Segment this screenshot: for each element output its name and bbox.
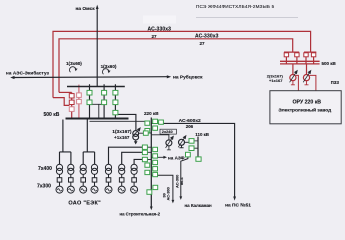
svg-text:7х300: 7х300 bbox=[37, 184, 51, 190]
svg-text:220 кВ: 220 кВ bbox=[144, 111, 159, 116]
svg-text:2х240: 2х240 bbox=[162, 129, 173, 134]
svg-text:110 кВ: 110 кВ bbox=[195, 132, 209, 137]
svg-text:1(3х167): 1(3х167) bbox=[112, 129, 132, 135]
svg-text:на Рубцовск: на Рубцовск bbox=[173, 74, 203, 81]
svg-text:АС-330х3: АС-330х3 bbox=[195, 34, 219, 40]
svg-text:АС-330х3: АС-330х3 bbox=[148, 27, 172, 33]
svg-text:на Омск: на Омск bbox=[76, 6, 96, 12]
svg-text:+1х167: +1х167 bbox=[269, 78, 283, 83]
svg-text:7х400: 7х400 bbox=[38, 166, 52, 172]
svg-text:500 кВ: 500 кВ bbox=[44, 112, 60, 118]
svg-text:Электролизный завод: Электролизный завод bbox=[278, 107, 331, 114]
svg-text:1(3х60): 1(3х60) bbox=[66, 61, 82, 66]
svg-text:27: 27 bbox=[152, 34, 158, 39]
svg-text:+1х167: +1х167 bbox=[114, 135, 130, 140]
svg-text:86.4: 86.4 bbox=[179, 177, 184, 185]
svg-text:на Строительная-2: на Строительная-2 bbox=[120, 211, 161, 216]
svg-text:206: 206 bbox=[186, 124, 194, 129]
svg-text:27: 27 bbox=[200, 41, 206, 46]
svg-text:на АЭС-Экибастуз: на АЭС-Экибастуз bbox=[6, 70, 50, 76]
svg-text:на АЗФ: на АЗФ bbox=[168, 155, 185, 160]
svg-text:1(3х60): 1(3х60) bbox=[101, 64, 117, 69]
svg-text:на ПС №51: на ПС №51 bbox=[225, 202, 251, 208]
svg-text:500 кВ: 500 кВ bbox=[322, 61, 337, 66]
svg-text:на Калкаман: на Калкаман bbox=[185, 203, 213, 208]
svg-text:ОРУ 220 кВ: ОРУ 220 кВ bbox=[293, 100, 322, 106]
svg-text:ПСЭ ЖФ44ФИСТХЛБ4Я-2МЗЫБ 5: ПСЭ ЖФ44ФИСТХЛБ4Я-2МЗЫБ 5 bbox=[196, 4, 275, 9]
svg-text:ОАО "ЕЭК": ОАО "ЕЭК" bbox=[68, 200, 101, 206]
svg-text:ПЗЗ: ПЗЗ bbox=[331, 80, 340, 85]
